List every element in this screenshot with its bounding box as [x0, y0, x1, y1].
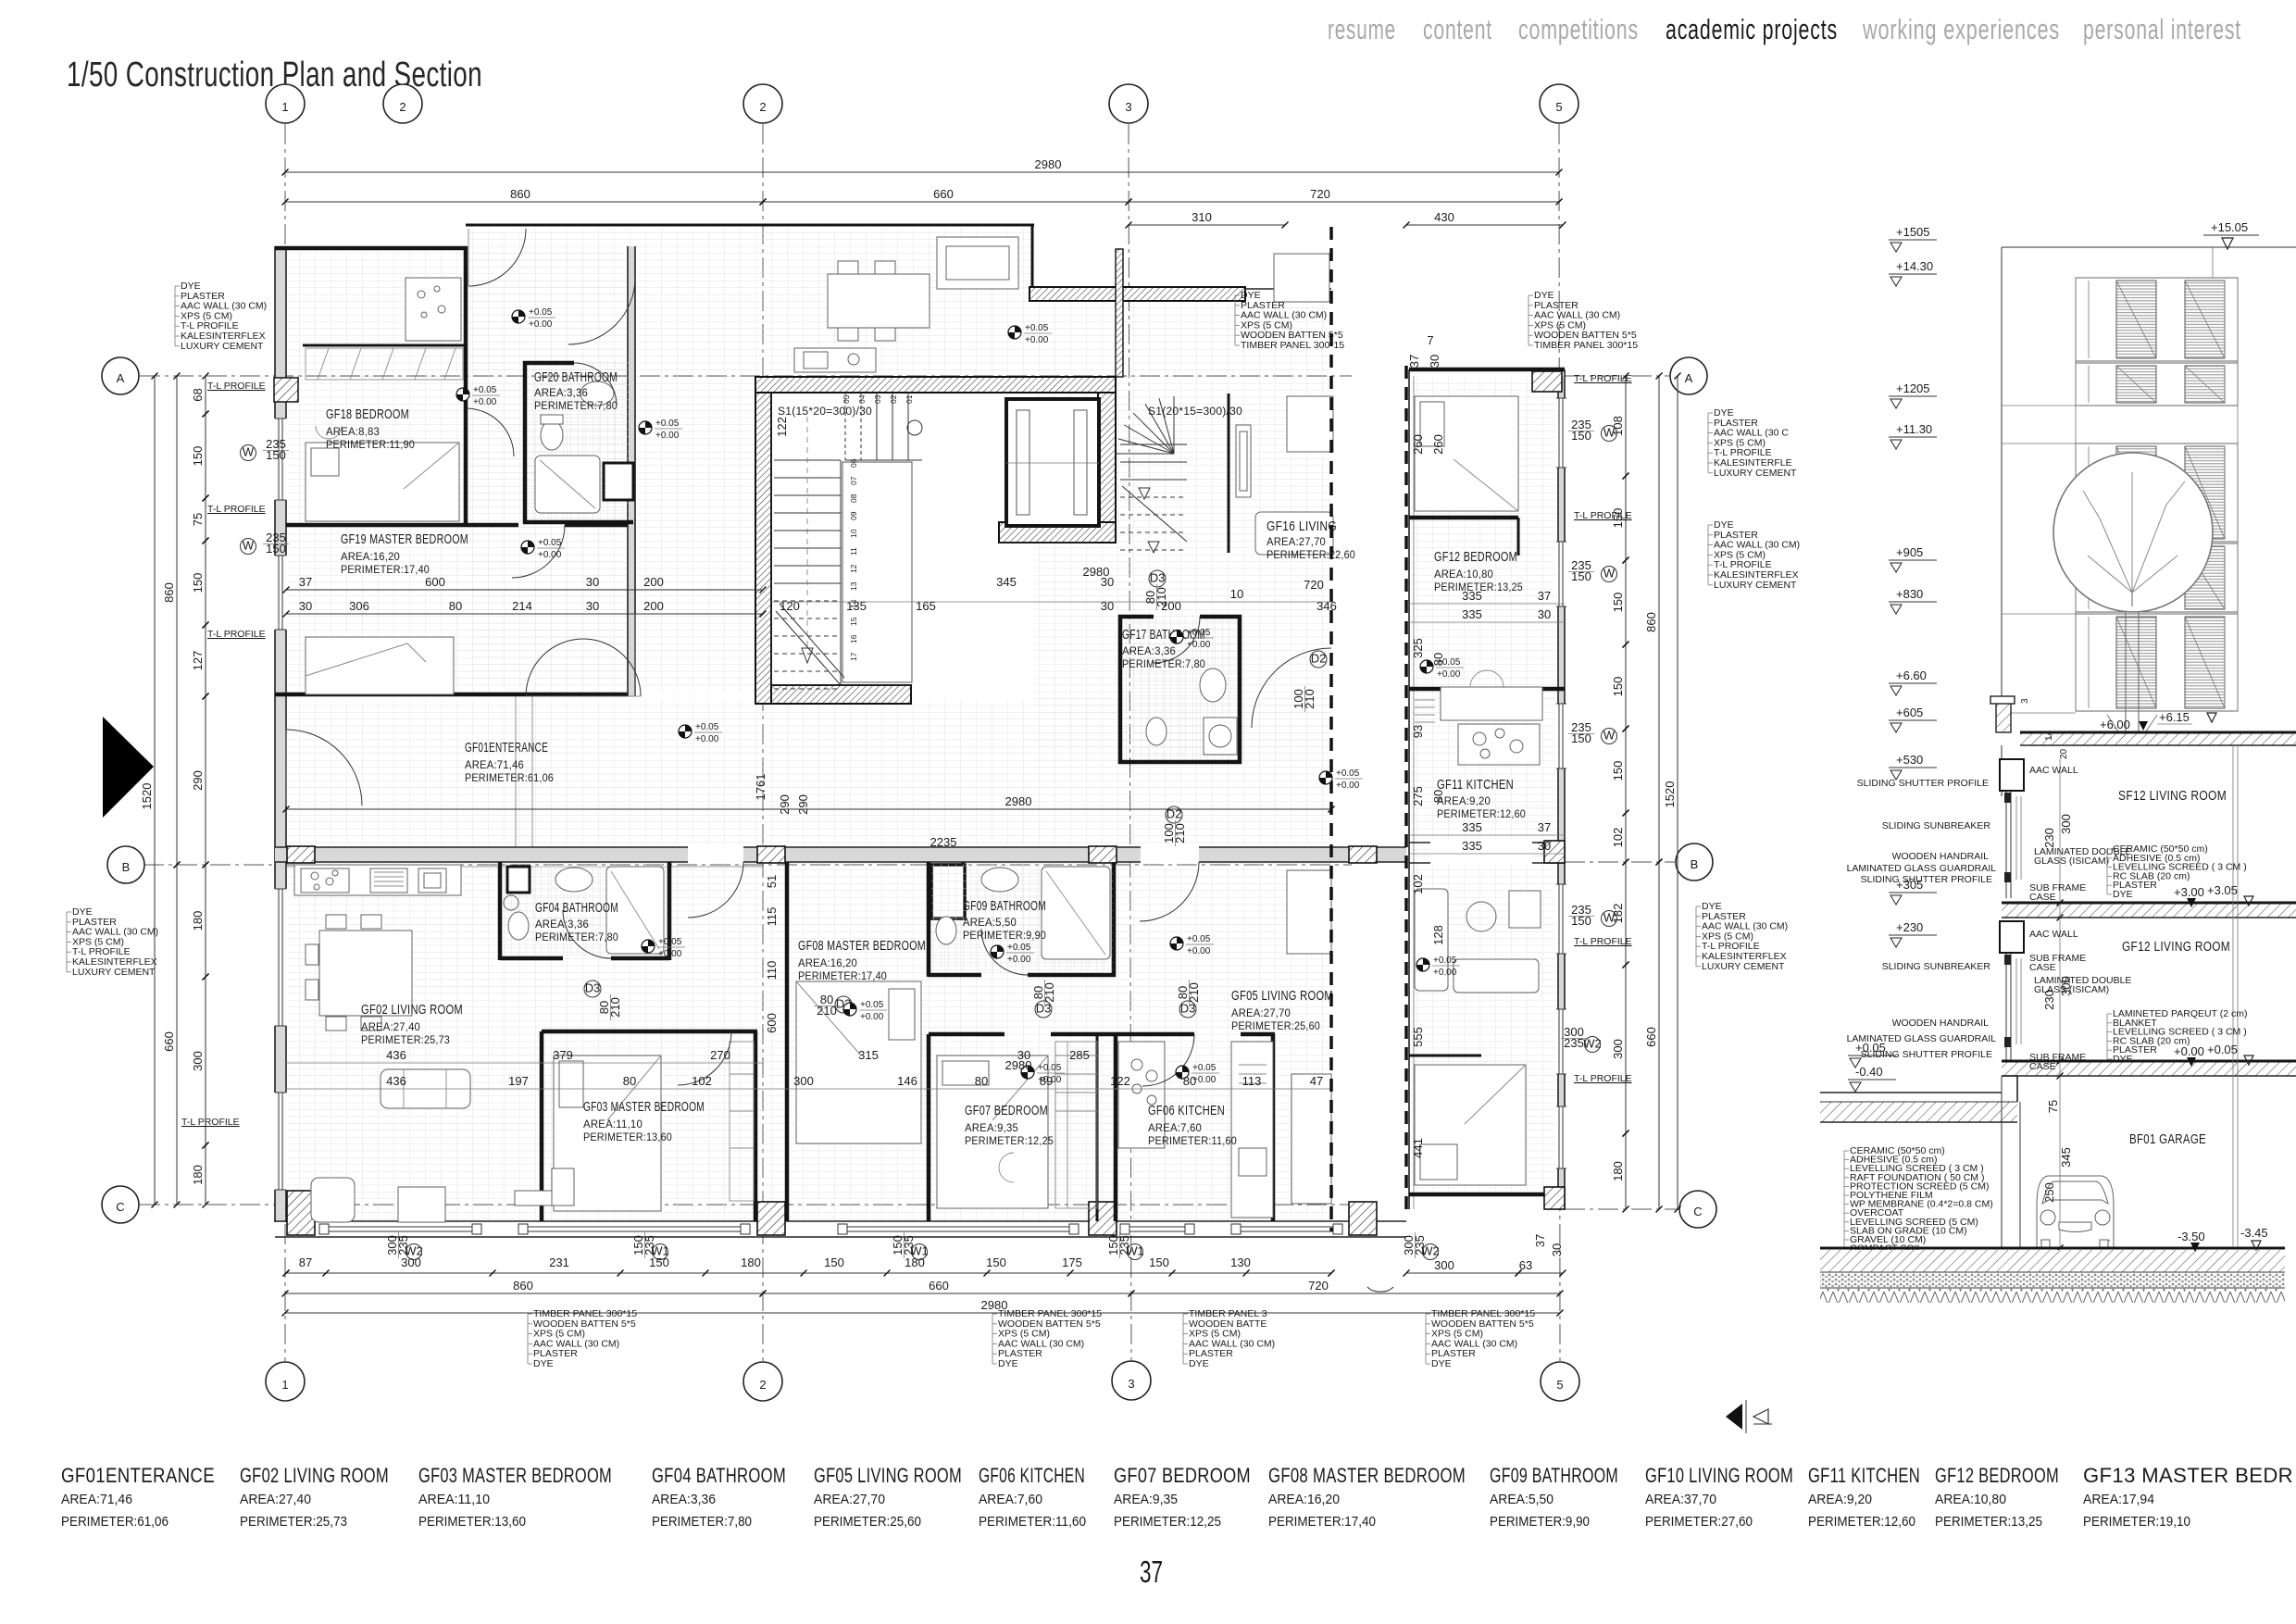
svg-text:GF09 BATHROOM: GF09 BATHROOM: [1490, 1464, 1618, 1487]
elevation mark +11.30: [1889, 422, 1937, 449]
GF03 wardrobe: [730, 1042, 754, 1201]
svg-text:10: 10: [849, 529, 858, 538]
svg-text:175: 175: [1062, 1255, 1082, 1269]
grid bubble B left: [107, 846, 144, 883]
strip W2 lower: [1583, 1037, 1602, 1053]
svg-text:AREA:71,46: AREA:71,46: [465, 760, 524, 771]
svg-text:W: W: [243, 445, 255, 459]
section building outline: [2002, 247, 2296, 702]
svg-text:PERIMETER:12,25: PERIMETER:12,25: [965, 1136, 1054, 1147]
svg-text:+905: +905: [1896, 545, 1923, 559]
svg-text:68: 68: [191, 388, 205, 401]
svg-text:+0.00: +0.00: [473, 397, 497, 407]
svg-text:LUXURY CEMENT: LUXURY CEMENT: [181, 341, 264, 352]
left dim 860 A-B: [162, 373, 181, 868]
svg-text:08: 08: [849, 493, 858, 503]
dimension 720 top: [1126, 187, 1563, 206]
svg-text:WOODEN HANDRAIL: WOODEN HANDRAIL: [1892, 1018, 1990, 1029]
svg-text:1: 1: [281, 100, 288, 114]
legend GF09: [1490, 1464, 1618, 1530]
GF03 room label: [583, 1099, 705, 1143]
stair flight upper (treads 01-05): [845, 393, 922, 460]
svg-text:02: 02: [889, 394, 898, 404]
svg-text:+14.30: +14.30: [1896, 259, 1933, 273]
grid bubble 1 bottom: [266, 1362, 305, 1401]
legend GF02: [240, 1464, 389, 1530]
elevator shaft: [1006, 399, 1099, 526]
section facade horizontal divisions: [2002, 406, 2076, 713]
bottom dim 2980: [282, 1298, 1564, 1317]
svg-text:2980: 2980: [1083, 565, 1110, 579]
svg-text:LUXURY CEMENT: LUXURY CEMENT: [1714, 580, 1797, 591]
D3 door circle mid: [1149, 570, 1166, 587]
GF02 kitchen counter: [294, 865, 461, 895]
svg-text:GF13 MASTER BEDR: GF13 MASTER BEDR: [2083, 1464, 2293, 1487]
svg-text:GLASS (ISICAM): GLASS (ISICAM): [2034, 984, 2109, 995]
grid bubble 5 top: [1540, 84, 1578, 123]
svg-text:+0.00: +0.00: [1336, 781, 1360, 791]
svg-text:47: 47: [1310, 1074, 1323, 1088]
svg-text:PERIMETER:12,60: PERIMETER:12,60: [1437, 809, 1526, 820]
GF16 table: [1287, 396, 1333, 452]
GF04 door arc: [563, 910, 611, 958]
svg-text:PERIMETER:12,25: PERIMETER:12,25: [1114, 1514, 1221, 1530]
svg-text:S1(15*20=300)/30: S1(15*20=300)/30: [778, 406, 872, 418]
svg-text:09: 09: [849, 511, 858, 520]
svg-text:30: 30: [1428, 355, 1441, 368]
svg-text:+230: +230: [1896, 920, 1923, 934]
svg-text:SLIDING SUNBREAKER: SLIDING SUNBREAKER: [1882, 961, 1991, 972]
svg-text:academic projects: academic projects: [1666, 13, 1838, 45]
svg-text:T-L PROFILE: T-L PROFILE: [1574, 373, 1632, 384]
svg-text:GF08 MASTER BEDROOM: GF08 MASTER BEDROOM: [1268, 1464, 1466, 1487]
material legend left top: [175, 281, 267, 352]
stair center dashed guide + arrow: [776, 417, 844, 685]
svg-text:LAMINATED GLASS GUARDRAIL: LAMINATED GLASS GUARDRAIL: [1847, 863, 1997, 874]
svg-text:379: 379: [553, 1048, 573, 1062]
internal dim chain upper: [283, 587, 767, 593]
svg-text:860: 860: [513, 1279, 533, 1293]
entrance spot level: [679, 722, 722, 744]
svg-text:182: 182: [1611, 904, 1625, 924]
floor tiles upper hall: [469, 229, 755, 692]
svg-text:05: 05: [842, 394, 851, 404]
svg-text:AREA:27,40: AREA:27,40: [240, 1492, 311, 1507]
svg-text:+0.05: +0.05: [1187, 934, 1211, 944]
GF08 bed: [796, 981, 921, 1143]
GF09 room label: [963, 898, 1046, 942]
svg-text:555: 555: [1411, 1027, 1425, 1047]
svg-text:GF05 LIVING ROOM: GF05 LIVING ROOM: [814, 1464, 962, 1487]
svg-text:17: 17: [849, 652, 858, 661]
facade panel group 1b: [2076, 363, 2238, 406]
svg-text:GF01ENTERANCE: GF01ENTERANCE: [61, 1464, 215, 1487]
legend GF06: [979, 1464, 1086, 1530]
svg-text:150: 150: [986, 1255, 1006, 1269]
svg-text:AREA:27,70: AREA:27,70: [814, 1492, 885, 1507]
svg-text:A: A: [1685, 371, 1693, 385]
svg-text:GF08 MASTER BEDROOM: GF08 MASTER BEDROOM: [798, 938, 926, 954]
svg-text:+6.15: +6.15: [2159, 710, 2190, 724]
dimension 2980 top: [282, 157, 1563, 176]
GF02 dining table: [306, 915, 412, 1031]
stair2 right wall: [1228, 394, 1230, 553]
svg-text:+1505: +1505: [1896, 225, 1930, 239]
ground line and hatches: [1820, 1248, 2285, 1303]
svg-text:660: 660: [933, 187, 954, 201]
GF02 room label: [361, 1002, 463, 1046]
svg-text:+11.30: +11.30: [1896, 422, 1932, 436]
svg-text:+605: +605: [1896, 706, 1923, 719]
grid bubble A right: [1670, 357, 1707, 394]
window left wall 452: [273, 418, 288, 500]
svg-text:235: 235: [902, 1235, 916, 1255]
section glazing upper storey: [2000, 759, 2024, 898]
upper-left unit walls: [275, 246, 635, 696]
svg-text:11: 11: [849, 547, 858, 556]
svg-text:231: 231: [549, 1255, 569, 1269]
GF17 room label: [1122, 627, 1205, 670]
svg-text:C: C: [116, 1200, 124, 1214]
stair core hatched left wall: [755, 393, 771, 704]
svg-text:+0.05: +0.05: [1433, 956, 1457, 966]
svg-text:+0.05: +0.05: [1187, 628, 1211, 638]
svg-text:DYE: DYE: [2113, 889, 2133, 900]
svg-text:AREA:16,20: AREA:16,20: [1268, 1492, 1340, 1507]
svg-text:+0.00: +0.00: [1437, 669, 1461, 680]
svg-text:PERIMETER:7,80: PERIMETER:7,80: [535, 932, 618, 943]
hatched pier C row 310: [287, 1191, 315, 1235]
ceramic stack lower: [2107, 1008, 2247, 1065]
strip dims 335/37 row2: [1462, 820, 1551, 853]
dimension 660 top: [760, 187, 1132, 206]
svg-text:PERIMETER:13,60: PERIMETER:13,60: [418, 1514, 526, 1530]
lower block top wall band: [275, 847, 1406, 862]
window left wall 960: [273, 889, 288, 1026]
svg-text:GF11 KITCHEN: GF11 KITCHEN: [1437, 777, 1514, 793]
svg-text:PERIMETER:61,06: PERIMETER:61,06: [465, 773, 554, 784]
svg-text:150: 150: [1611, 761, 1625, 781]
grid line 3: [1129, 124, 1131, 1361]
elevation mark +14.30: [1889, 259, 1937, 286]
strip hatched pier C: [1544, 1187, 1565, 1209]
garage floor build-up labels: [1844, 1145, 1993, 1255]
svg-text:150: 150: [649, 1255, 669, 1269]
material legend strip top (timber): [1529, 290, 1638, 351]
svg-text:660: 660: [1644, 1027, 1658, 1047]
upper right unit top hatched wall: [1029, 287, 1245, 301]
left dim small chain: [191, 373, 209, 418]
GF11 island: [1458, 724, 1540, 765]
svg-text:AREA:27,70: AREA:27,70: [1231, 1008, 1291, 1019]
GF16 radiator: [1236, 425, 1251, 497]
svg-text:PERIMETER:12,60: PERIMETER:12,60: [1808, 1514, 1915, 1530]
svg-text:AREA:10,80: AREA:10,80: [1935, 1492, 2006, 1507]
svg-text:7: 7: [1427, 333, 1433, 347]
svg-text:+0.00: +0.00: [1187, 946, 1211, 956]
svg-text:SLIDING SHUTTER PROFILE: SLIDING SHUTTER PROFILE: [1857, 778, 1989, 789]
svg-text:04: 04: [857, 394, 867, 404]
svg-text:5: 5: [1556, 1378, 1563, 1392]
svg-text:860: 860: [510, 187, 530, 201]
svg-text:+530: +530: [1896, 753, 1923, 767]
svg-text:AREA:9,35: AREA:9,35: [965, 1123, 1018, 1134]
svg-text:300: 300: [1434, 1258, 1454, 1272]
svg-text:12: 12: [849, 564, 858, 573]
svg-text:30: 30: [299, 599, 312, 613]
svg-text:300: 300: [401, 1255, 421, 1269]
svg-text:335: 335: [1462, 820, 1482, 834]
svg-text:PERIMETER:7,80: PERIMETER:7,80: [652, 1514, 752, 1530]
svg-text:80: 80: [1183, 1074, 1196, 1088]
bottom dim chain small: [283, 1270, 1335, 1277]
strip B row wall lines: [1409, 843, 1565, 863]
svg-text:GF04 BATHROOM: GF04 BATHROOM: [652, 1464, 786, 1487]
bottom strip dims: [1404, 1258, 1522, 1277]
svg-text:102: 102: [1411, 874, 1425, 894]
GF09 door arc: [981, 929, 1028, 975]
material legend upper right: [1235, 290, 1344, 351]
svg-text:210: 210: [1042, 982, 1056, 1003]
door arc upper hall entry: [468, 229, 526, 286]
svg-text:CASE: CASE: [2029, 1061, 2056, 1072]
GF07 room label: [965, 1103, 1054, 1147]
svg-text:13: 13: [849, 581, 858, 591]
legend GF13: [2083, 1464, 2293, 1530]
svg-text:315: 315: [858, 1048, 879, 1062]
grid line 1: [284, 124, 286, 1361]
svg-text:AREA:37,70: AREA:37,70: [1645, 1492, 1716, 1507]
svg-text:AAC WALL: AAC WALL: [2029, 929, 2078, 940]
svg-text:+1205: +1205: [1896, 381, 1930, 395]
svg-text:1761: 1761: [754, 774, 767, 801]
entrance extension lines: [516, 614, 841, 847]
svg-text:PERIMETER:25,60: PERIMETER:25,60: [814, 1514, 921, 1530]
svg-text:AREA:10,80: AREA:10,80: [1434, 569, 1493, 581]
exterior wall left: [275, 246, 286, 1222]
elevation mark +1205: [1889, 381, 1937, 408]
upper hall furniture: dining table: [828, 261, 930, 341]
svg-text:C: C: [1693, 1205, 1702, 1218]
svg-text:T-L PROFILE: T-L PROFILE: [207, 504, 266, 515]
entrance dim lines 2980/2235: [283, 794, 1335, 813]
GF08 room label: [798, 938, 926, 982]
svg-text:1: 1: [281, 1378, 288, 1392]
svg-text:3: 3: [1128, 1377, 1134, 1391]
stair node circle: [907, 420, 922, 435]
hall top wall: [466, 224, 1034, 227]
elevation mark +605: [1889, 706, 1937, 732]
T-L profile labels strip: [1574, 373, 1632, 1084]
material legend strip right 2: [1708, 519, 1800, 591]
svg-text:+0.05: +0.05: [529, 307, 553, 318]
svg-text:GF19 MASTER BEDROOM: GF19 MASTER BEDROOM: [341, 531, 468, 547]
svg-text:1520: 1520: [1663, 781, 1677, 808]
window bottom 345: [319, 1223, 481, 1235]
svg-text:+0.00: +0.00: [860, 1012, 884, 1022]
dimension 310 top: [1126, 210, 1289, 229]
svg-text:AREA:11,10: AREA:11,10: [418, 1492, 490, 1507]
rotated dims right of GF04: [765, 875, 779, 1033]
GF19 bed: [306, 637, 454, 694]
svg-text:108: 108: [1611, 416, 1625, 436]
GF02 TV unit: [515, 1191, 624, 1206]
stair core hatched top wall: [755, 377, 1116, 393]
svg-text:PERIMETER:17,40: PERIMETER:17,40: [798, 971, 887, 982]
svg-text:37: 37: [299, 575, 312, 589]
GF07 bed: [937, 1056, 1048, 1208]
svg-text:197: 197: [508, 1074, 529, 1088]
svg-text:127: 127: [191, 651, 205, 671]
svg-text:T-L PROFILE: T-L PROFILE: [1574, 1073, 1632, 1084]
svg-text:2980: 2980: [1035, 157, 1062, 171]
svg-text:102: 102: [692, 1074, 712, 1088]
svg-text:860: 860: [1644, 612, 1658, 632]
hatched pier left at A: [274, 378, 298, 402]
material legend left bottom: [67, 906, 158, 978]
svg-text:230: 230: [2042, 828, 2056, 848]
facade panel group 1: [2076, 278, 2238, 361]
GF10 sofa: [1415, 889, 1541, 993]
GF05 top furniture: [1287, 870, 1331, 954]
GF07 wardrobe: [1055, 1042, 1097, 1208]
svg-text:AREA:3,36: AREA:3,36: [652, 1492, 716, 1507]
svg-text:275: 275: [1411, 786, 1425, 806]
svg-text:PERIMETER:13,25: PERIMETER:13,25: [1935, 1514, 2042, 1530]
svg-text:51: 51: [765, 875, 779, 888]
svg-text:150: 150: [1611, 677, 1625, 697]
svg-text:200: 200: [643, 599, 664, 613]
upper hall sofa set: [937, 237, 1018, 289]
svg-text:AREA:9,20: AREA:9,20: [1808, 1492, 1872, 1507]
svg-text:-0.40: -0.40: [1855, 1065, 1883, 1079]
svg-text:+0.00: +0.00: [1187, 640, 1211, 650]
svg-text:AREA:3,36: AREA:3,36: [534, 388, 588, 399]
GF16 bed top: [1274, 254, 1329, 302]
break line strip left: [1404, 366, 1408, 1215]
svg-text:T-L PROFILE: T-L PROFILE: [207, 381, 266, 392]
lower interior walls: [500, 862, 1275, 1221]
bottom dim 860/660/720: [282, 1279, 767, 1297]
GF17 bathroom: [1118, 615, 1242, 764]
svg-text:+0.00: +0.00: [655, 431, 680, 441]
svg-text:102: 102: [1611, 828, 1625, 848]
hatched pier B row 310: [287, 846, 315, 863]
svg-text:290: 290: [191, 770, 205, 791]
door arc GF18: [466, 408, 514, 456]
svg-text:37: 37: [1140, 1555, 1163, 1589]
svg-text:436: 436: [386, 1074, 406, 1088]
grid line C: [140, 1204, 1352, 1206]
svg-text:PERIMETER:25,73: PERIMETER:25,73: [361, 1035, 450, 1046]
grid bubble A left: [102, 357, 139, 394]
svg-text:DYE: DYE: [2113, 1054, 2133, 1065]
svg-text:PERIMETER:7,80: PERIMETER:7,80: [534, 401, 618, 412]
facade panel group 3: [2076, 614, 2238, 711]
svg-text:128: 128: [1431, 925, 1445, 945]
svg-text:content: content: [1423, 13, 1492, 45]
svg-text:430: 430: [1434, 210, 1454, 224]
svg-text:150: 150: [266, 448, 286, 462]
svg-text:GF02 LIVING ROOM: GF02 LIVING ROOM: [361, 1002, 463, 1018]
svg-text:W: W: [243, 539, 255, 553]
svg-text:LAMINATED GLASS GUARDRAIL: LAMINATED GLASS GUARDRAIL: [1847, 1033, 1997, 1044]
svg-text:63: 63: [1519, 1258, 1532, 1272]
legend GF11: [1808, 1464, 1920, 1530]
facade panel edge lines: [2076, 278, 2238, 711]
GF09 inner niche: [931, 865, 965, 918]
svg-text:+0.05: +0.05: [1007, 943, 1031, 953]
lower block bottom wall band: [275, 1221, 1406, 1237]
svg-text:T-L PROFILE: T-L PROFILE: [1574, 510, 1632, 521]
svg-text:210: 210: [1187, 982, 1201, 1003]
svg-text:325: 325: [1411, 638, 1425, 658]
svg-text:working experiences: working experiences: [1862, 13, 2060, 45]
svg-text:GF03 MASTER BEDROOM: GF03 MASTER BEDROOM: [418, 1464, 612, 1487]
svg-text:310: 310: [1192, 210, 1212, 224]
svg-text:210: 210: [1154, 587, 1168, 607]
svg-text:37: 37: [1407, 355, 1421, 368]
double door from upper hall: [526, 639, 641, 696]
svg-text:GF16 LIVING: GF16 LIVING: [1267, 518, 1337, 534]
svg-text:GF05 LIVING ROOM: GF05 LIVING ROOM: [1231, 988, 1333, 1004]
elevation mark -0.40: [1848, 1065, 1896, 1092]
svg-text:+0.00: +0.00: [1433, 968, 1457, 978]
svg-text:150: 150: [1611, 593, 1625, 613]
parapet left of slab6: [1990, 696, 2015, 796]
svg-text:AREA:71,46: AREA:71,46: [61, 1492, 132, 1507]
GF18 room label: [326, 406, 415, 451]
window labels bottom: [405, 1244, 423, 1260]
door arc D2 top right of unit: [568, 278, 635, 344]
stair core hatched bottom wall: [771, 685, 911, 704]
svg-text:290: 290: [796, 794, 810, 815]
svg-text:80: 80: [975, 1074, 988, 1088]
svg-text:D2: D2: [1167, 807, 1182, 821]
strip right dim chains: [1644, 373, 1663, 866]
svg-text:115: 115: [765, 907, 779, 927]
svg-text:210: 210: [1173, 823, 1187, 843]
svg-text:AREA:16,20: AREA:16,20: [341, 552, 400, 563]
stair2 down arrows: [1122, 486, 1187, 553]
svg-text:150: 150: [191, 573, 205, 593]
svg-text:SF12 LIVING ROOM: SF12 LIVING ROOM: [2118, 788, 2227, 804]
dimension 430 strip top: [1404, 210, 1566, 229]
strip right small chain: [1611, 373, 1629, 480]
svg-text:PERIMETER:9,90: PERIMETER:9,90: [1490, 1514, 1590, 1530]
section right small labels: [2029, 765, 2131, 1072]
svg-text:150: 150: [1149, 1255, 1169, 1269]
svg-text:260: 260: [1431, 434, 1445, 455]
svg-text:CASE: CASE: [2029, 962, 2056, 973]
svg-text:300: 300: [793, 1074, 814, 1088]
spot levels lower block: [642, 937, 685, 959]
GF18 closet hatch: [306, 348, 463, 380]
elevation mark +905: [1889, 545, 1937, 572]
grid bubble B right: [1676, 843, 1713, 881]
svg-text:T-L PROFILE: T-L PROFILE: [1574, 936, 1632, 947]
svg-text:110: 110: [765, 961, 779, 981]
svg-text:03: 03: [873, 394, 882, 404]
grid bubble 2a top: [383, 84, 422, 123]
svg-text:335: 335: [1462, 589, 1482, 603]
elevation mark +230: [1889, 920, 1937, 947]
svg-text:2980: 2980: [1005, 794, 1032, 808]
svg-text:2: 2: [399, 100, 406, 114]
legend GF04: [652, 1464, 786, 1530]
svg-text:PERIMETER:25,60: PERIMETER:25,60: [1231, 1021, 1320, 1032]
svg-text:135: 135: [846, 599, 867, 613]
